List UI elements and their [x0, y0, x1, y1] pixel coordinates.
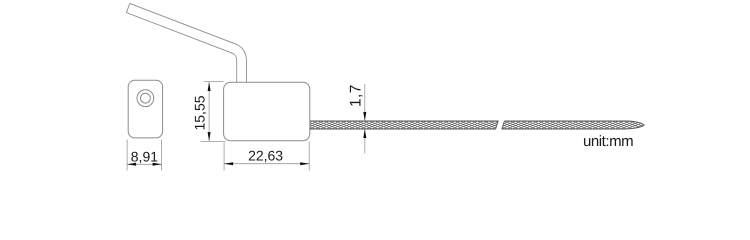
svg-text:8,91: 8,91	[131, 148, 158, 164]
svg-text:15,55: 15,55	[192, 95, 208, 130]
svg-text:1,7: 1,7	[347, 84, 364, 107]
svg-text:unit:mm: unit:mm	[583, 133, 633, 150]
svg-text:22,63: 22,63	[248, 148, 283, 164]
